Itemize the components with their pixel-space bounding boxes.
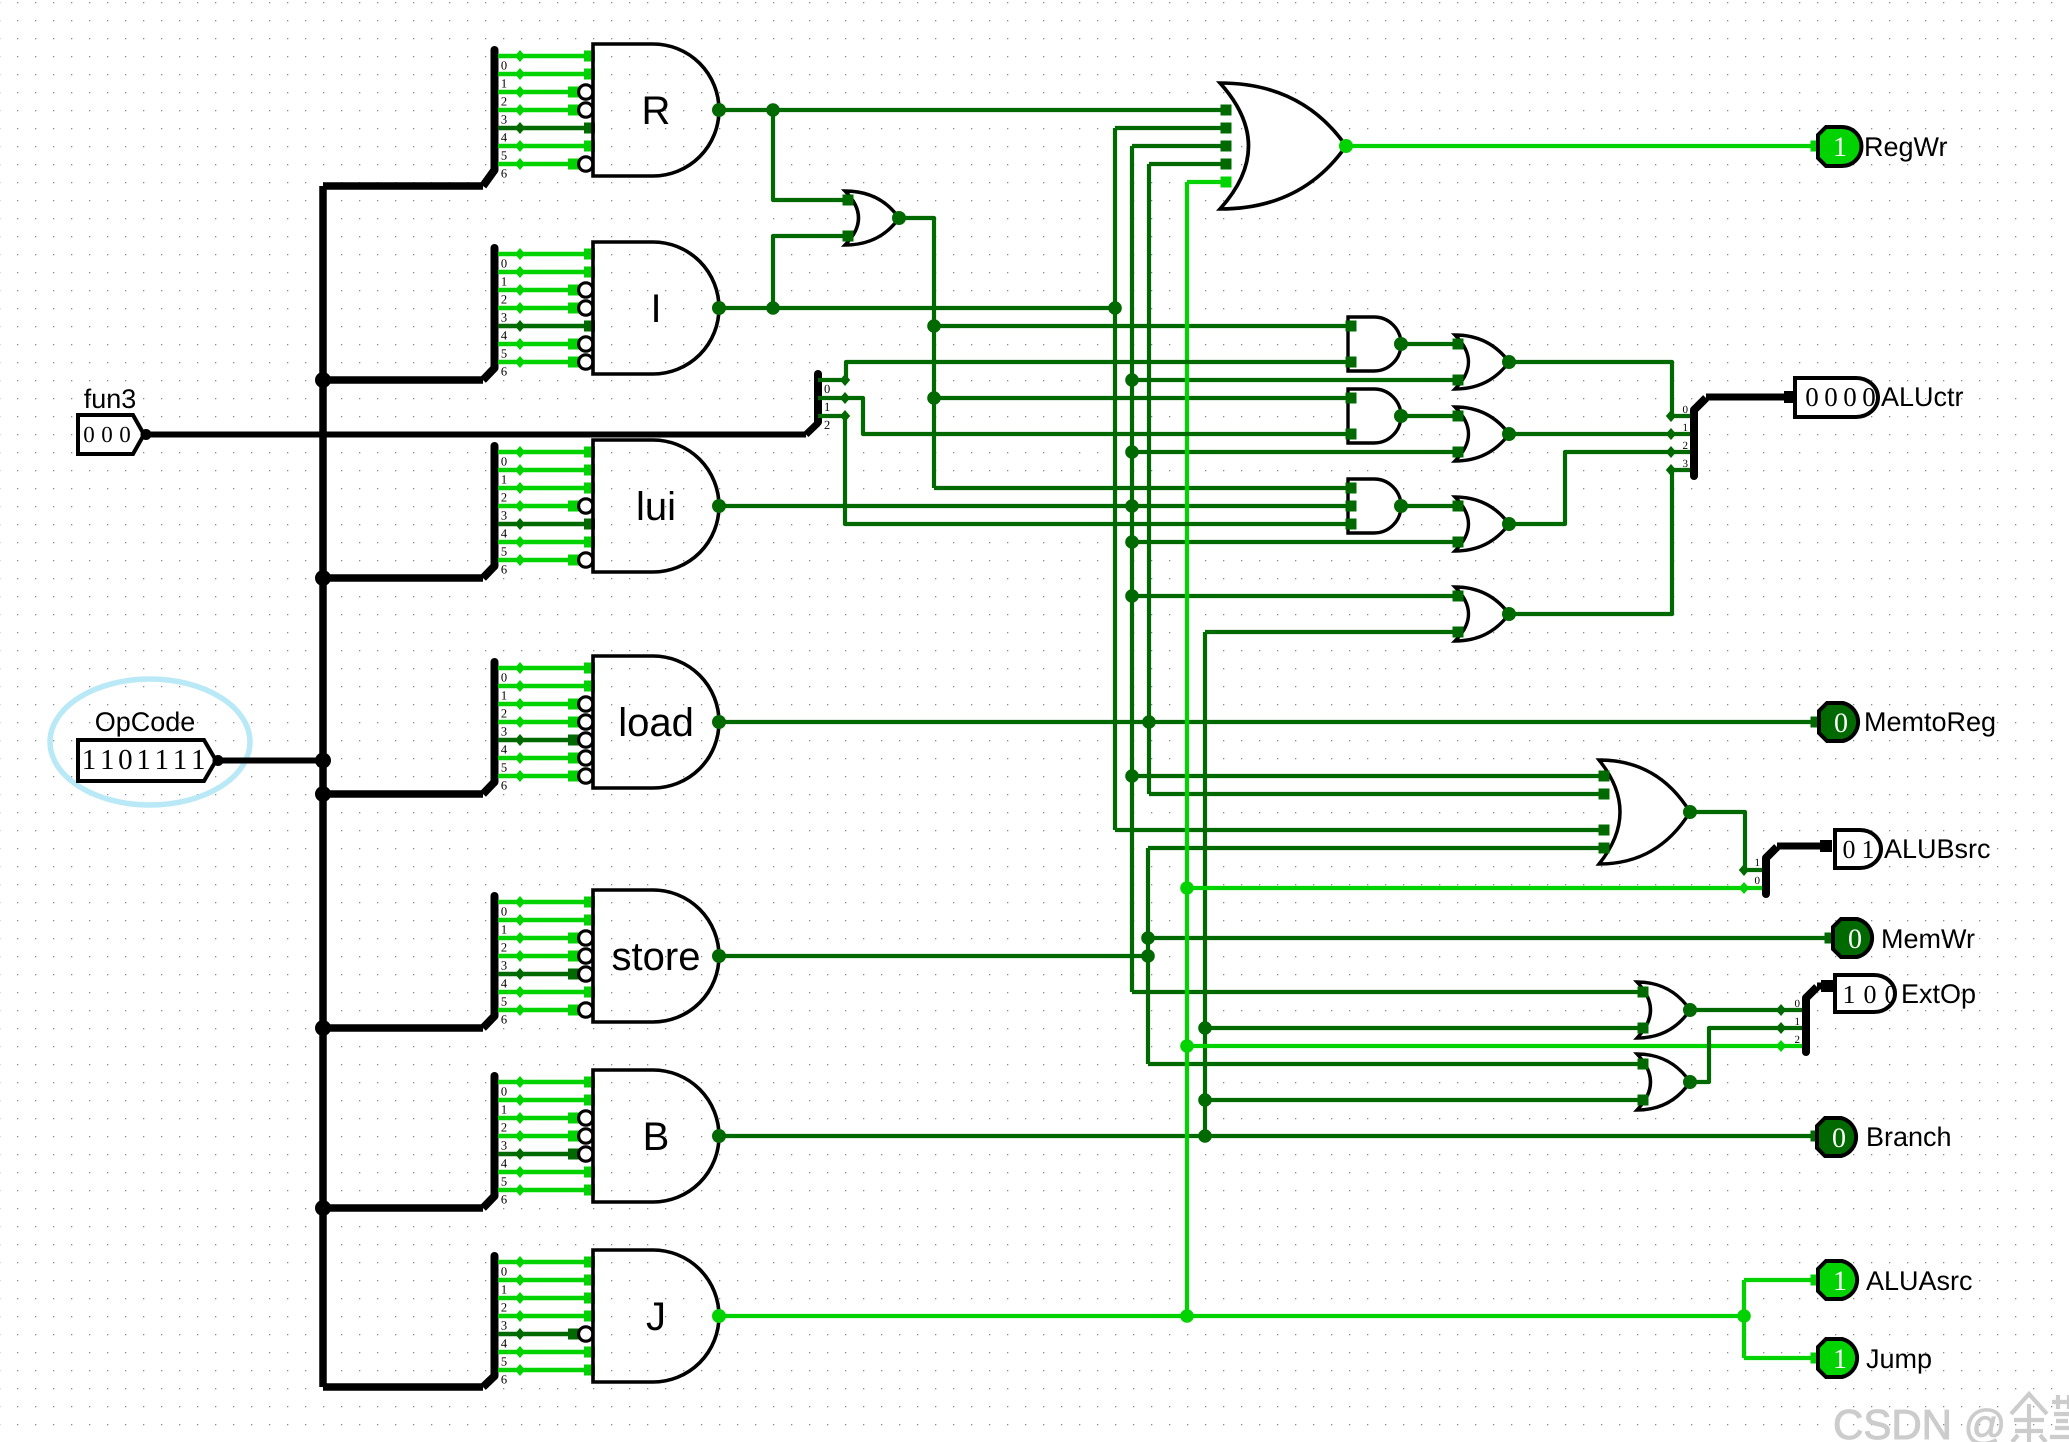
svg-text:1: 1 [501,77,507,91]
junction bus y=1028 [315,1020,331,1036]
svg-text:4: 4 [501,131,508,145]
svg-text:MemWr: MemWr [1881,924,1975,954]
junction J trunk at J row [1180,1309,1194,1323]
splitter fun3 (3-bit) [818,374,830,432]
svg-text:0: 0 [1755,875,1761,887]
svg-text:0: 0 [1683,404,1689,416]
junction J trunk y=1046 [1180,1039,1194,1053]
svg-text:MemtoReg: MemtoReg [1864,707,1996,737]
svg-text:1: 1 [100,744,115,776]
AND gate B (7-input) [568,1070,726,1202]
junction OR2 trunk y=326 [927,319,941,333]
watermark CSDN @yulan [1833,1394,2069,1442]
svg-text:0: 0 [1832,1123,1846,1154]
junction bus y=578 [315,570,331,586]
svg-text:5: 5 [501,149,507,163]
svg-text:0: 0 [1805,382,1819,412]
svg-text:0: 0 [501,257,507,271]
svg-text:2: 2 [501,1301,507,1315]
svg-text:6: 6 [501,779,507,793]
wire B output east to Branch pin [719,1134,1816,1138]
wire splitter feed at y=186 [323,182,483,190]
wire A1 output to O1 [1401,342,1458,346]
svg-text:1: 1 [824,400,830,414]
wire ALUctr bus to pin [1706,394,1792,401]
junction bus y=380 [315,372,331,388]
OR gate O3 [1453,497,1517,551]
wire R output to RegWr-OR input [719,108,1226,112]
wire O3 output to ALUctr bit2 [1509,452,1694,524]
wire lui trunk vertical x=1132 [1130,146,1134,992]
wire OpCode stub to bus [218,758,323,764]
svg-text:ExtOp: ExtOp [1901,979,1976,1009]
wire B trunk to O4 input 2 [1205,630,1458,634]
svg-text:2: 2 [501,707,507,721]
wire load trunk to ALUBsrc-OR input 2 [1149,792,1604,796]
svg-text:3: 3 [501,1319,507,1333]
svg-text:0: 0 [501,59,507,73]
junction bus y=1208 [315,1200,331,1216]
junction B trunk y=1100 [1198,1093,1212,1107]
splitter ALUBsrc (2-bit) [1755,847,1778,894]
wire lui trunk to ALUBsrc-OR input 1 [1132,774,1604,778]
AND gate load (7-input) [568,656,726,788]
svg-text:4: 4 [501,743,508,757]
svg-text:0: 0 [1843,382,1857,412]
wire OR2 output to distribution trunk x=934 [899,218,934,488]
output pin Branch (0) [1811,1131,1822,1142]
wire B trunk to ExtOp OR-a input 2 [1205,1026,1643,1030]
wire A3 output to O3 [1401,504,1458,508]
svg-text:0: 0 [501,1265,507,1279]
junction load trunk at load row [1142,715,1156,729]
wire J trunk to RegWr-OR input 5 [1187,180,1226,184]
wire to ALUAsrc pin [1744,1278,1816,1282]
svg-text:0: 0 [501,1085,507,1099]
junction store trunk at MemWr row [1141,931,1155,945]
svg-text:5: 5 [501,545,507,559]
svg-text:RegWr: RegWr [1864,132,1948,162]
svg-text:1: 1 [82,744,97,776]
wire B trunk to ExtOp OR-b input 2 [1205,1098,1643,1102]
OR gate O4 [1453,587,1517,641]
junction I trunk at I row [1108,301,1122,315]
svg-text:ALUBsrc: ALUBsrc [1884,834,1991,864]
svg-text:load: load [618,701,694,745]
AND gate A2 (narrow) [1346,389,1409,443]
svg-text:4: 4 [501,329,508,343]
splitter for gate B [495,1076,585,1207]
svg-text:2: 2 [501,95,507,109]
wire I branch up to OR2 [773,236,845,308]
svg-text:3: 3 [501,311,507,325]
output pin MemWr (0) [1825,933,1836,944]
wire splitter feed at y=380 [323,376,483,384]
svg-text:1: 1 [501,1103,507,1117]
svg-text:4: 4 [501,527,508,541]
svg-text:1: 1 [1683,422,1689,434]
splitter ALUctr (4-bit) [1683,398,1707,476]
output pin ALUAsrc (1) [1811,1275,1822,1286]
svg-text:fun3: fun3 [84,384,137,414]
svg-text:6: 6 [501,167,507,181]
splitter for gate R [495,50,585,181]
AND gate R (7-input) [568,44,726,176]
svg-text:0: 0 [1848,924,1862,955]
wire ExtOp bus to pin [1817,983,1830,990]
svg-text:2: 2 [501,491,507,505]
svg-text:I: I [650,287,661,331]
svg-text:6: 6 [501,365,507,379]
svg-text:Branch: Branch [1866,1122,1952,1152]
highlight ellipse around OpCode input [50,679,250,805]
wire lui output east to A3 middle input [719,504,1351,508]
OR gate O1 [1453,335,1517,389]
wire RegWr output (bright) [1346,144,1816,148]
wire ExtOp-b output to splitter bit1 [1690,1028,1806,1082]
svg-text:2: 2 [1795,1034,1801,1046]
wire splitter feed at y=1387 [323,1383,483,1391]
svg-text:0: 0 [501,671,507,685]
bus OpCode vertical trunk [319,186,327,1387]
svg-text:OpCode: OpCode [95,707,196,737]
AND gate store (7-input) [568,890,726,1022]
svg-text:2: 2 [501,941,507,955]
svg-text:6: 6 [501,1193,507,1207]
svg-text:5: 5 [501,995,507,1009]
wire J trunk to ALUBsrc splitter bit0 [1187,886,1766,890]
OR gate RegWr (5-input wide) [1220,83,1353,209]
svg-text:ALUctr: ALUctr [1881,382,1964,412]
svg-text:5: 5 [501,761,507,775]
junction R output branch [766,103,780,117]
wire J trunk to ExtOp splitter bit2 [1187,1044,1806,1048]
wire I output east [719,306,1115,310]
svg-text:0: 0 [1843,835,1856,864]
wire store trunk to ALUBsrc-OR input 4 [1148,846,1604,850]
svg-text:1: 1 [1833,1344,1847,1375]
svg-text:1: 1 [501,923,507,937]
wire O1 output to ALUctr bit0 [1509,362,1694,416]
wire lui trunk corner to ExtOp OR-a input 1 [1132,990,1643,994]
svg-text:6: 6 [501,1373,507,1387]
wire splitter feed at y=1028 [323,1024,483,1032]
svg-text:B: B [643,1115,670,1159]
wire to Jump pin [1744,1356,1816,1360]
output pin RegWr (1) [1811,141,1822,152]
wire fun3 bus [146,432,806,438]
svg-text:1: 1 [1755,857,1761,869]
junction J trunk y=888 [1180,881,1194,895]
wire J fanout vertical [1742,1280,1746,1358]
output pin ExtOp (value 1 0 0) [1835,975,1895,1012]
svg-text:1: 1 [1862,835,1875,864]
wire lui trunk to RegWr-OR input 3 [1132,144,1226,148]
wire I trunk vertical x=1115 [1113,128,1117,830]
wire OR2 trunk to A3 input [934,486,1351,490]
wire O4 output to ALUctr bit3 [1509,470,1694,614]
svg-text:3: 3 [1683,458,1689,470]
svg-text:1: 1 [501,473,507,487]
svg-text:ALUAsrc: ALUAsrc [1866,1266,1973,1296]
svg-text:0: 0 [824,382,830,396]
OR gate O2 [1453,407,1517,461]
svg-text:0: 0 [119,422,131,447]
wire splitter feed at y=1208 [323,1204,483,1212]
svg-text:1: 1 [1833,132,1847,163]
svg-text:3: 3 [501,1139,507,1153]
svg-text:5: 5 [501,1355,507,1369]
junction lui trunk y=452 [1125,445,1139,459]
svg-text:1: 1 [191,744,206,776]
wire R branch down to OR2 [773,110,845,200]
svg-text:3: 3 [501,725,507,739]
svg-text:CSDN @: CSDN @ [1833,1401,2006,1442]
svg-text:2: 2 [501,1121,507,1135]
wire J output east (bright) [719,1314,1744,1318]
svg-text:0: 0 [1862,382,1876,412]
AND gate lui (7-input) [568,440,726,572]
wire ALUBsrc-OR output to splitter bit1 [1690,812,1766,870]
junction lui trunk y=776 [1125,769,1139,783]
svg-text:3: 3 [501,509,507,523]
input pin fun3 (value 0 0 0) [78,415,144,454]
junction lui trunk y=380 [1125,373,1139,387]
svg-text:4: 4 [501,977,508,991]
OR gate ExtOp-b [1637,1054,1697,1110]
svg-text:R: R [642,89,671,133]
OR gate ExtOp-a [1637,982,1697,1038]
wire I trunk east to ALUBsrc-OR input 3 [1115,828,1604,832]
wire O2 output to ALUctr bit1 [1509,432,1694,436]
svg-text:0: 0 [501,455,507,469]
wire fun3 bit0 to A1 input 2 [818,362,1351,380]
junction B trunk at B row [1198,1129,1212,1143]
splitter for gate load [495,662,585,793]
svg-text:5: 5 [501,347,507,361]
svg-text:5: 5 [501,1175,507,1189]
svg-text:1: 1 [501,275,507,289]
svg-text:2: 2 [824,418,830,432]
svg-text:0: 0 [1864,980,1877,1009]
wire store trunk to ExtOp OR-b input 1 [1148,1062,1643,1066]
splitter for gate J [495,1256,585,1387]
wire load trunk vertical x=1149 [1147,164,1151,794]
svg-text:0: 0 [101,422,113,447]
wire B trunk vertical x=1205 [1203,632,1207,1136]
AND gate J (7-input) [568,1250,726,1382]
wire lui trunk to O2 input [1132,450,1458,454]
svg-text:1: 1 [501,1283,507,1297]
junction OpCode bus [315,753,331,769]
splitter ExtOp (3-bit) [1795,987,1818,1052]
svg-text:1: 1 [136,744,151,776]
junction lui trunk at lui row [1125,499,1139,513]
junction lui trunk y=542 [1125,535,1139,549]
junction bus y=794 [315,786,331,802]
wire OR2 trunk to A1 input [934,324,1351,328]
svg-text:3: 3 [501,959,507,973]
wire lui trunk to O1 input [1132,378,1458,382]
splitter for gate I [495,248,585,379]
wire store output east [719,954,1148,958]
wire I trunk to RegWr-OR input 2 [1115,126,1226,130]
svg-text:0: 0 [83,422,95,447]
svg-text:0: 0 [1795,998,1801,1010]
svg-text:6: 6 [501,563,507,577]
wire load output east to MemtoReg [719,720,1816,724]
svg-text:1: 1 [173,744,188,776]
junction lui trunk y=596 [1125,589,1139,603]
svg-text:0: 0 [118,744,133,776]
wire store trunk vertical x=1148 [1146,848,1150,1064]
svg-text:lui: lui [636,485,676,529]
splitter for gate store [495,896,585,1027]
wire ExtOp-a output to splitter bit0 [1690,1008,1806,1012]
junction I output branch [766,301,780,315]
junction store trunk at store row [1141,949,1155,963]
input pin OpCode (value 1 1 0 1 1 1 1) [78,740,216,781]
svg-text:store: store [612,935,701,979]
output pin ALUBsrc (value 0 1) [1835,830,1881,868]
output pin ALUctr (value 0 0 0 0) [1795,378,1878,417]
wire load trunk to RegWr-OR input 4 [1149,162,1226,166]
AND gate A1 (narrow) [1346,317,1409,371]
AND gate I (7-input) [568,242,726,374]
svg-text:0: 0 [1824,382,1838,412]
OR gate OR2 (R or I) [843,191,907,245]
svg-text:0: 0 [1834,708,1848,739]
wire J trunk vertical x=1187 (bright) [1185,182,1189,1316]
OR gate ALUBsrc (5-input medium) [1599,760,1698,864]
output pin MemtoReg (0) [1811,717,1822,728]
splitter for gate lui [495,446,585,577]
junction OR2 trunk y=398 [927,391,941,405]
wire splitter feed at y=794 [323,790,483,798]
svg-text:1: 1 [1833,1266,1847,1297]
AND gate A3 (narrow) [1346,479,1409,533]
svg-text:4: 4 [501,1157,508,1171]
svg-text:J: J [646,1295,666,1339]
wire A2 output to O2 [1401,414,1458,418]
wire splitter feed at y=578 [323,574,483,582]
wire lui trunk to O3 input [1132,540,1458,544]
junction J fanout to ALUAsrc and Jump [1737,1309,1751,1323]
svg-text:1: 1 [501,689,507,703]
svg-text:0: 0 [501,905,507,919]
svg-text:1: 1 [1795,1016,1801,1028]
svg-text:1: 1 [155,744,170,776]
svg-text:0: 0 [1885,980,1898,1009]
svg-text:1: 1 [1843,980,1856,1009]
svg-text:4: 4 [501,1337,508,1351]
svg-text:2: 2 [501,293,507,307]
svg-text:2: 2 [1683,440,1689,452]
wire fun3 bit1 to A2 input 2 [818,398,1351,434]
wire fun3 bit2 to A3 input 3 [818,416,1351,524]
svg-text:6: 6 [501,1013,507,1027]
wire MemWr row to pin [1148,936,1830,940]
svg-text:3: 3 [501,113,507,127]
wire lui trunk to O4 input [1132,594,1458,598]
wire OR2 trunk to A2 input [934,396,1351,400]
output pin Jump (1) [1811,1353,1822,1364]
wire ALUBsrc bus to pin [1777,843,1830,850]
junction B trunk y=1028 [1198,1021,1212,1035]
svg-text:Jump: Jump [1866,1344,1932,1374]
